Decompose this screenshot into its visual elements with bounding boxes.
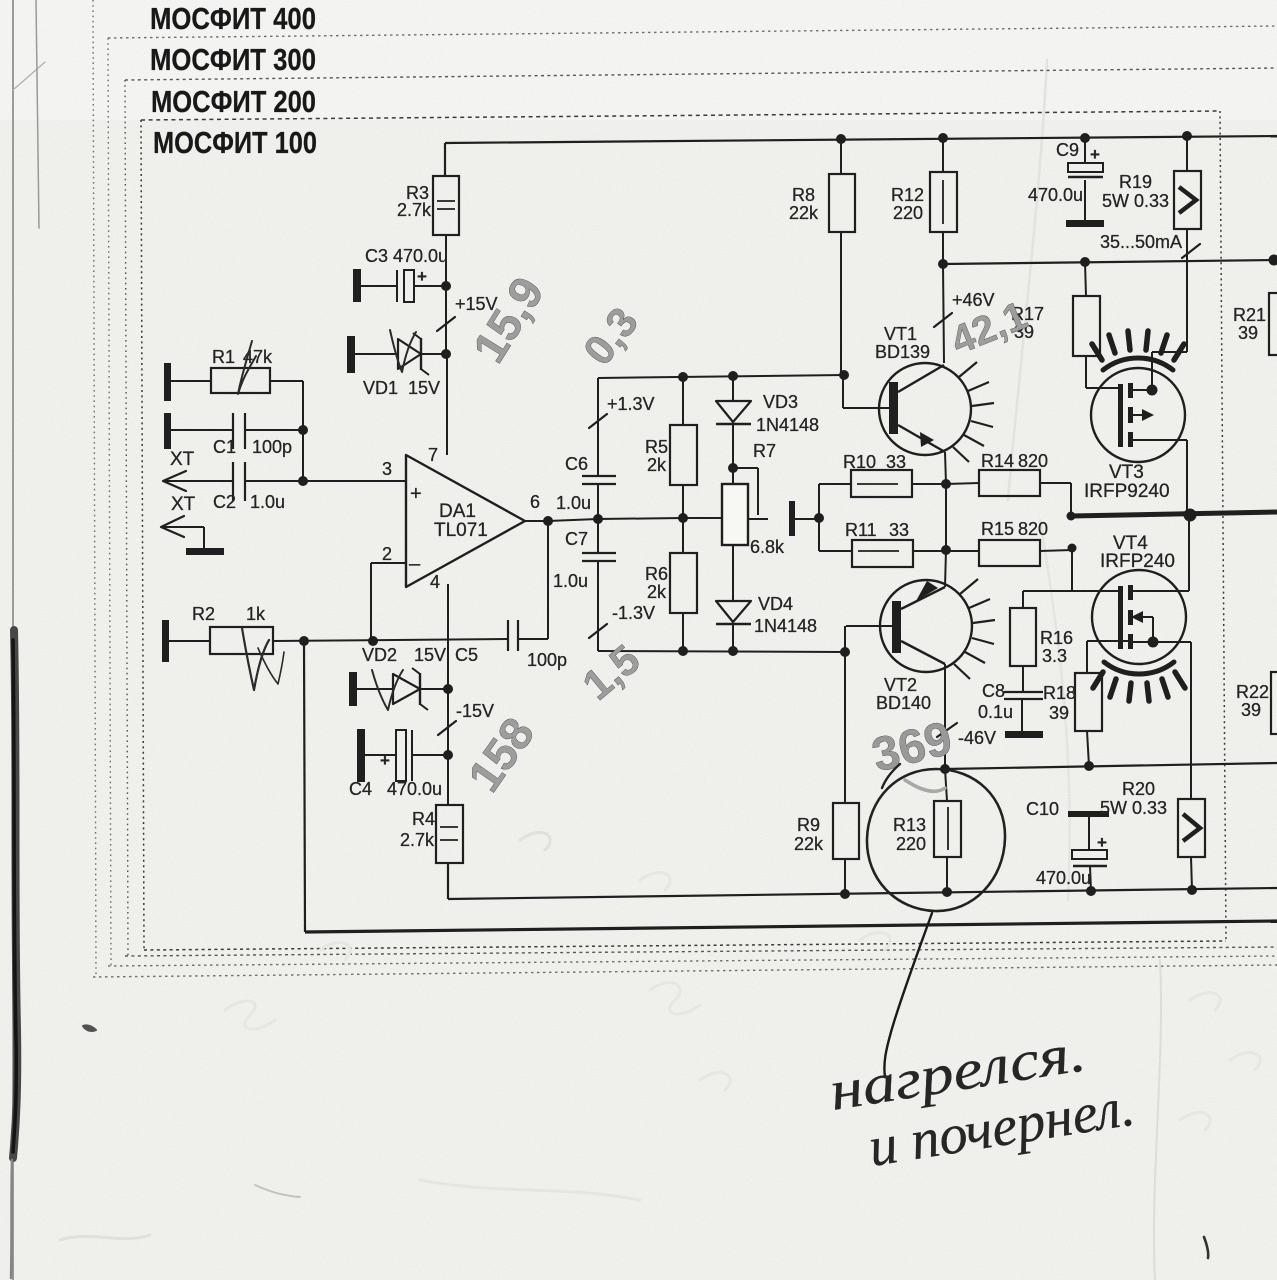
slash mark +1.3V [589, 414, 607, 428]
terminal bar C1 input [164, 413, 171, 449]
terminal bar VD1 [347, 336, 355, 373]
label R6 2k [645, 564, 668, 602]
terminal bar mid tap [789, 501, 795, 536]
svg-text:820: 820 [1018, 451, 1048, 471]
pen tick bottom right [1204, 1237, 1208, 1258]
svg-text:2.7k: 2.7k [397, 200, 432, 220]
svg-text:470.0u: 470.0u [387, 779, 442, 799]
check mark over R2 (pen) [242, 628, 284, 690]
node dot R15 junction [1068, 544, 1077, 553]
wire -15V column [447, 689, 449, 805]
label C6 [565, 454, 588, 474]
resistor R5 [670, 377, 697, 518]
svg-text:1N4148: 1N4148 [756, 415, 819, 435]
node dot R5 top [678, 372, 688, 382]
svg-text:15V: 15V [414, 645, 446, 665]
wire VT4 source to R18 column [1087, 640, 1133, 642]
label R5 2k [645, 437, 668, 475]
label VD3 1N4148 [756, 392, 819, 435]
transistor VT2 BD140 [845, 550, 972, 769]
ground bar input [186, 548, 224, 555]
svg-text:R11: R11 [845, 520, 877, 540]
svg-text:100p: 100p [527, 650, 567, 670]
capacitor C7 [582, 519, 616, 651]
svg-text:3.3: 3.3 [1042, 646, 1067, 666]
label C10 470.0u [1036, 868, 1091, 888]
svg-text:R4: R4 [412, 809, 435, 829]
node dot VD2 [443, 684, 453, 694]
svg-text:C6: C6 [565, 454, 588, 474]
svg-text:C1: C1 [213, 437, 236, 457]
label VD4 1N4148 [754, 594, 817, 636]
label -15V [456, 701, 494, 721]
svg-text:39: 39 [1238, 323, 1258, 343]
trimmer R7 6.8k [722, 468, 768, 545]
svg-text:3: 3 [382, 459, 392, 479]
svg-text:МОСФИТ 400: МОСФИТ 400 [150, 1, 316, 36]
resistor R2 [162, 620, 508, 662]
svg-text:820: 820 [1018, 519, 1048, 539]
wire mid node [598, 518, 748, 519]
svg-text:R13: R13 [893, 815, 926, 835]
node dot VD4 bottom [728, 646, 738, 656]
enclosure box MOSFIT 400 (dotted) [93, 0, 1277, 977]
zener diode VD1 [355, 333, 446, 375]
zener diode VD2 [357, 668, 448, 710]
label R17 39 [1011, 304, 1044, 342]
op-amp pin labels [382, 445, 540, 592]
svg-text:-1.3V: -1.3V [612, 603, 655, 623]
node dot R2 feedback [299, 636, 309, 646]
resistor R20 (fuse style) [1178, 799, 1205, 890]
svg-text:+1.3V: +1.3V [607, 394, 655, 414]
svg-text:DA1: DA1 [439, 501, 476, 522]
svg-text:R18: R18 [1043, 683, 1076, 703]
node dot R6 bottom [678, 646, 688, 656]
label R19 5W 0.33 [1102, 172, 1169, 211]
node dot C3 [441, 281, 451, 291]
heatsink crown VT3 [1092, 331, 1184, 370]
wire pin2 branch [371, 563, 406, 641]
wire bottom rail A [448, 863, 1277, 899]
svg-text:1.0u: 1.0u [250, 492, 285, 512]
svg-text:22k: 22k [794, 834, 824, 854]
label MOSFIT 400 [150, 1, 316, 36]
node dot +46V right edge [1269, 255, 1277, 266]
slash mark +46V [934, 313, 952, 327]
svg-text:-46V: -46V [958, 728, 996, 748]
wire tap to emitter node [795, 518, 818, 520]
label R4 2.7k [400, 809, 435, 850]
resistor R1 [171, 368, 303, 393]
svg-text:470.0u: 470.0u [1036, 868, 1091, 888]
label C9 470.0u [1028, 185, 1083, 205]
label R10 33 [843, 452, 906, 472]
terminal bar C3 [353, 269, 361, 302]
resistor R12 [930, 138, 957, 264]
ground bar C9 [1066, 220, 1104, 227]
svg-text:1.0u: 1.0u [556, 493, 591, 513]
label C7 1.0u [553, 571, 588, 591]
node dot R9 bottom [840, 889, 850, 899]
svg-text:1k: 1k [246, 604, 266, 624]
diode VD3 1N4148 [716, 376, 751, 468]
node dot C10 bottom [1086, 886, 1096, 896]
capacitor C8 0.1u [1004, 692, 1043, 731]
svg-text:R5: R5 [645, 437, 668, 457]
svg-text:МОСФИТ 200: МОСФИТ 200 [151, 84, 316, 119]
label +1.3V [607, 394, 655, 414]
svg-text:-15V: -15V [456, 701, 494, 721]
svg-text:VT2: VT2 [884, 675, 917, 695]
wire R15 node to gate line [1071, 548, 1073, 591]
label R14 820 [981, 451, 1048, 471]
svg-text:IRFP240: IRFP240 [1100, 551, 1175, 572]
pencil note 158 [458, 708, 545, 801]
svg-text:5W 0.33: 5W 0.33 [1102, 191, 1169, 211]
svg-text:VT3: VT3 [1109, 462, 1144, 483]
resistor R15 820 [913, 540, 1072, 566]
label R8 22k [789, 185, 819, 223]
pencil note 0,3 [574, 299, 647, 374]
svg-text:C8: C8 [982, 681, 1005, 701]
svg-text:22k: 22k [789, 203, 819, 223]
label VT1 BD139 [875, 324, 930, 362]
label C9 [1056, 140, 1079, 160]
svg-text:R14: R14 [981, 451, 1014, 471]
svg-text:IRFP9240: IRFP9240 [1084, 481, 1170, 502]
node dot R13 bottom [942, 887, 952, 897]
svg-text:VT1: VT1 [884, 324, 917, 344]
svg-text:2.7k: 2.7k [400, 830, 435, 850]
svg-text:C10: C10 [1026, 799, 1059, 819]
mosfet VT3 IRFP9240 [1091, 262, 1187, 516]
node dot C6-C7 [593, 514, 603, 524]
node dot C9 top rail [1080, 133, 1090, 143]
capacitor C2 [233, 462, 303, 501]
label R12 220 [891, 185, 924, 223]
label XT upper [170, 449, 195, 470]
node dot VT2 base line [840, 647, 850, 657]
connector arrow ground input [161, 516, 204, 549]
node dot C1-R1 [298, 425, 308, 435]
wire R3 to C3 node [445, 235, 447, 354]
svg-text:220: 220 [896, 834, 926, 854]
node dot R17 +46V [1080, 257, 1090, 267]
svg-text:R1: R1 [212, 347, 235, 367]
svg-text:C2: C2 [213, 492, 236, 512]
wire upper bias rail [598, 375, 844, 476]
wire lower bias rail [598, 561, 845, 652]
svg-text:R12: R12 [891, 185, 924, 205]
svg-text:XT: XT [170, 449, 195, 470]
svg-text:XT: XT [171, 494, 196, 515]
label R11 33 [845, 520, 909, 540]
svg-text:1N4148: 1N4148 [754, 616, 817, 636]
label VD2 15V [362, 645, 446, 665]
svg-text:6: 6 [530, 492, 540, 512]
label C8 0.1u [978, 681, 1013, 722]
node dot op-amp output [543, 516, 553, 526]
svg-text:R15: R15 [981, 519, 1014, 539]
label VT3 IRFP9240 [1084, 462, 1170, 502]
enclosure box MOSFIT 200 (dotted) [125, 68, 1277, 956]
faint scribbles left of handwriting [225, 833, 1260, 1130]
label C7 [565, 529, 588, 549]
node dot -46V junction [940, 764, 950, 774]
svg-text:+: + [417, 267, 427, 286]
resistor R14 820 [912, 470, 1071, 496]
transistor VT1 BD139 [843, 363, 971, 484]
label R16 3.3 [1040, 628, 1073, 666]
node dot mid [678, 513, 688, 523]
node dot output-R14 [1067, 512, 1076, 521]
pointer line from circle to note [884, 913, 932, 1077]
hand-drawn circle around R13 [867, 764, 1005, 911]
svg-text:R8: R8 [792, 185, 815, 205]
label R18 39 [1043, 683, 1076, 723]
svg-text:–: – [409, 553, 421, 575]
wire output node to C6/C7 node [548, 519, 598, 521]
label R13 220 [893, 815, 926, 854]
resistor R10 33 [851, 470, 912, 497]
label R3 2.7k [397, 183, 432, 220]
svg-text:C7: C7 [565, 529, 588, 549]
ground bar C8 [1005, 731, 1043, 738]
pencil note 15,9 [462, 268, 554, 371]
label C6 1.0u [556, 493, 591, 513]
svg-text:+: + [410, 483, 422, 505]
label MOSFIT 200 [151, 84, 316, 119]
label 35...50mA [1100, 232, 1182, 252]
slash mark +15V [437, 317, 455, 331]
wire +supply top rail [445, 136, 1277, 176]
resistor R3 [433, 176, 459, 235]
resistor R4 [436, 805, 463, 863]
svg-text:BD140: BD140 [876, 693, 931, 713]
resistor R6 [670, 518, 697, 651]
svg-text:TL071: TL071 [434, 520, 488, 541]
svg-text:R21: R21 [1233, 305, 1266, 325]
svg-text:33: 33 [889, 520, 909, 540]
resistor R19 (fuse style) [1174, 136, 1201, 262]
resistor R11 33 [852, 540, 913, 567]
svg-text:100p: 100p [252, 437, 292, 457]
svg-text:+: + [1097, 833, 1107, 852]
node dot tap [814, 513, 824, 523]
svg-text:R9: R9 [797, 815, 820, 835]
label R2 1k [192, 604, 266, 624]
capacitor C5 feedback [508, 521, 548, 651]
wire tap node to R10/R11 [819, 484, 852, 551]
node dot R8 top rail [836, 134, 846, 144]
handwritten note line 2 (i pochernel) [864, 1076, 1138, 1179]
node dot VD3-R7 [728, 463, 738, 473]
resistor R8 [829, 139, 855, 375]
label C5 100p [455, 645, 567, 670]
heatsink rays VT1 [953, 362, 994, 462]
slash mark -1.3V [589, 624, 607, 638]
node dot R12 top rail [938, 133, 948, 143]
wire R1 right down to C1 node [302, 381, 304, 481]
label VD1 15V [363, 378, 440, 398]
svg-text:МОСФИТ 100: МОСФИТ 100 [153, 125, 317, 160]
svg-text:35...50mA: 35...50mA [1100, 232, 1182, 252]
heatsink crown VT4 [1093, 662, 1185, 701]
svg-text:VD3: VD3 [763, 392, 798, 412]
label C3 470.0u [365, 246, 448, 266]
label MOSFIT 100 [153, 125, 317, 160]
label -1.3V [612, 603, 655, 623]
resistor R21 39 [1269, 293, 1277, 355]
svg-text:2k: 2k [647, 582, 667, 602]
svg-text:R22: R22 [1236, 682, 1269, 702]
svg-text:R16: R16 [1040, 628, 1073, 648]
svg-text:R2: R2 [192, 604, 215, 624]
capacitor C3 (electrolytic) [361, 267, 446, 302]
svg-text:C4: C4 [349, 779, 372, 799]
node dot +46V junction [938, 259, 948, 269]
node dot emitters VT1 [941, 479, 951, 489]
resistor R9 22k [833, 652, 859, 894]
label R21 39 [1233, 305, 1266, 343]
label -46V [958, 728, 996, 748]
label C4 470.0u [349, 779, 442, 799]
svg-text:R19: R19 [1119, 172, 1152, 192]
svg-text:+: + [380, 751, 390, 770]
svg-text:39: 39 [1241, 700, 1261, 720]
capacitor C4 (electrolytic) [365, 730, 448, 781]
capacitor C10 470u (electrolytic) [1068, 811, 1109, 891]
label R9 22k [794, 815, 824, 854]
wire to op-amp pin3 [303, 480, 406, 482]
mosfet VT4 IRFP240 [1023, 516, 1191, 799]
wire R12 to VT1 collector [943, 264, 944, 363]
check mark over VD2 (pen) [372, 670, 403, 710]
node dot VD1 [441, 349, 451, 359]
pencil note 42,1 [945, 293, 1034, 363]
node dot R8 bottom [839, 370, 849, 380]
connector arrow XT input [163, 471, 233, 491]
heatsink rays VT2 [954, 579, 995, 679]
check mark over R1 (pen) [238, 341, 256, 394]
label R15 820 [981, 519, 1048, 539]
svg-text:15V: 15V [408, 378, 440, 398]
capacitor C6 [582, 476, 616, 519]
enclosure box MOSFIT 300 (dotted) [108, 26, 1277, 966]
svg-text:МОСФИТ 300: МОСФИТ 300 [150, 42, 316, 77]
svg-text:33: 33 [886, 452, 906, 472]
capacitor C9 470u (electrolytic) [1068, 138, 1103, 220]
resistor R22 39 [1271, 672, 1277, 734]
wire bottom rail B (return) [304, 641, 1277, 932]
label VT4 IRFP240 [1100, 533, 1175, 572]
slash mark -15V [438, 721, 456, 735]
label R20 5W 0.33 [1100, 779, 1167, 818]
svg-text:VD1: VD1 [363, 378, 398, 398]
label C1 100p [213, 437, 292, 457]
wire R14 node to output rail [1070, 483, 1072, 516]
svg-text:470.0u: 470.0u [1028, 185, 1083, 205]
svg-text:+: + [1090, 145, 1100, 164]
wire op-amp pin4 down [447, 584, 449, 689]
slash mark 35..50mA [1182, 244, 1200, 258]
node dot R20 bottom [1187, 885, 1197, 895]
svg-text:7: 7 [428, 445, 438, 465]
op-amp DA1 TL071 [406, 455, 525, 587]
handwritten note line 1 (nagrelsya) [825, 1021, 1090, 1123]
svg-text:C5: C5 [455, 645, 478, 665]
diode VD4 1N4148 [716, 545, 751, 651]
label +15V [455, 294, 498, 314]
svg-text:R10: R10 [843, 452, 876, 472]
svg-text:VD2: VD2 [362, 645, 397, 665]
node dot C2-R1-opamp [298, 476, 308, 486]
wire output down to feedback [547, 521, 549, 639]
node dot C4 [443, 750, 453, 760]
svg-text:0.1u: 0.1u [978, 702, 1013, 722]
resistor R16 3.3 [1010, 591, 1036, 692]
wire output rail (thick) [1071, 512, 1277, 516]
label R7 6.8k [750, 537, 785, 557]
slash mark -46V [937, 723, 957, 737]
svg-text:1.0u: 1.0u [553, 571, 588, 591]
pencil note 36 ohm [867, 712, 958, 791]
svg-text:BD139: BD139 [875, 342, 930, 362]
label R1 47k [212, 347, 273, 367]
node dot VD3 top [728, 371, 738, 381]
wire -46V node rail [945, 763, 1277, 769]
svg-text:R6: R6 [645, 564, 668, 584]
svg-text:R20: R20 [1122, 779, 1155, 799]
capacitor C1 [171, 413, 303, 449]
svg-text:R7: R7 [753, 441, 776, 461]
svg-text:2: 2 [382, 544, 392, 564]
svg-text:5W 0.33: 5W 0.33 [1100, 798, 1167, 818]
svg-text:C3 470.0u: C3 470.0u [365, 246, 448, 266]
label C2 1.0u [213, 492, 285, 512]
node dot R19 top rail [1182, 131, 1192, 141]
terminal bar C4 [357, 729, 365, 782]
svg-text:39: 39 [1049, 703, 1069, 723]
wire op-amp pin7 to +15V node [446, 354, 448, 455]
label VT2 BD140 [876, 675, 931, 713]
svg-text:4: 4 [430, 572, 440, 592]
label MOSFIT 300 [150, 42, 316, 77]
svg-text:220: 220 [893, 203, 923, 223]
wire +46V node rail [943, 260, 1277, 264]
node dot R18 bottom [1084, 761, 1094, 771]
resistor R13 220 [934, 769, 961, 892]
wire emitter node column [945, 484, 947, 550]
node dot inverting input branch [368, 636, 378, 646]
label R7 [753, 441, 776, 461]
terminal bar R1 input [164, 363, 171, 401]
pencil note 1,5 [574, 635, 649, 709]
label XT lower [171, 494, 196, 515]
svg-text:2k: 2k [647, 455, 667, 475]
node dot emitters VT2 [941, 545, 951, 555]
svg-text:C9: C9 [1056, 140, 1079, 160]
label +46V [952, 290, 995, 310]
node dot output rail [1184, 509, 1197, 522]
resistor R17 39 [1073, 262, 1120, 388]
enclosure box MOSFIT 100 (dashed) [141, 111, 1226, 950]
terminal bar VD2 [349, 672, 357, 706]
wire op-amp output [525, 520, 548, 522]
check mark over VD1 (pen) [390, 330, 416, 372]
svg-text:6.8k: 6.8k [750, 537, 785, 557]
